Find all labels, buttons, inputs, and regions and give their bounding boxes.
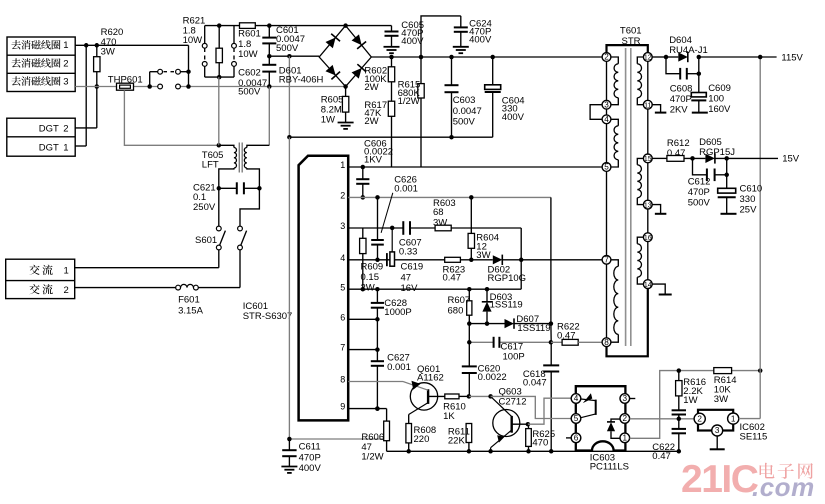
svg-text:0.47: 0.47 xyxy=(557,330,576,341)
resistor R623 xyxy=(445,257,461,262)
wire T601 pin11 ground stub xyxy=(652,105,660,113)
svg-text:3: 3 xyxy=(623,394,628,403)
wire pin6-pin7 link xyxy=(375,319,380,352)
svg-text:F601: F601 xyxy=(178,294,200,305)
transformer T601 core xyxy=(626,48,631,346)
capacitor C608 xyxy=(666,57,701,80)
label R602 100K 2W xyxy=(364,65,387,93)
label C612 470P 500V xyxy=(688,176,711,208)
T601 pin3-pin4 tap link xyxy=(590,105,602,120)
svg-text:.com: .com xyxy=(752,472,815,502)
wire DC- vertical xyxy=(288,56,290,137)
switch S601 left pole xyxy=(216,226,225,250)
svg-text:0.47: 0.47 xyxy=(652,451,671,462)
T601 pin 7 xyxy=(602,255,611,264)
label R623 0.47 xyxy=(443,264,466,283)
svg-text:2W: 2W xyxy=(364,82,378,93)
svg-text:3W: 3W xyxy=(433,217,447,228)
wire D607 line xyxy=(469,321,553,326)
thermistor THP601 xyxy=(117,83,134,90)
svg-text:5: 5 xyxy=(604,163,609,172)
transistor Q601 A1162 xyxy=(403,381,438,415)
wire pin2 line xyxy=(348,195,551,200)
label D602 RGP10G xyxy=(488,264,527,284)
capacitor C604 xyxy=(485,57,501,137)
label C606 0.0022 1KV xyxy=(364,138,393,165)
svg-text:14: 14 xyxy=(644,282,652,289)
wire degauss coil 1 to contacts xyxy=(75,43,188,48)
ground C611 xyxy=(281,467,297,473)
capacitor C609 xyxy=(691,74,706,113)
capacitor C603 xyxy=(445,57,459,137)
capacitor C611 xyxy=(282,439,296,467)
capacitor R616 coupling xyxy=(672,410,686,419)
svg-text:115V: 115V xyxy=(781,52,803,63)
wire pin9 line xyxy=(348,408,386,410)
switch S601 right pole xyxy=(238,226,247,250)
svg-text:C609: C609 xyxy=(708,83,731,94)
wire AC degauss line xyxy=(75,84,345,89)
capacitor C617 xyxy=(494,337,500,348)
svg-text:1000P: 1000P xyxy=(384,307,411,318)
resistor R607 xyxy=(467,289,472,326)
wire opto pin2 line xyxy=(630,417,695,422)
resistor R625 xyxy=(526,424,532,451)
label Q601 A1162 xyxy=(417,364,444,384)
label C608 470P 2KV xyxy=(670,83,693,115)
svg-text:STR: STR xyxy=(622,36,641,47)
resistor R602 xyxy=(388,57,394,82)
ground R605 xyxy=(338,123,354,129)
label C601 0.0047 500V xyxy=(276,25,305,54)
wire relay to T605 xyxy=(218,77,220,145)
capacitor C607 xyxy=(403,221,410,235)
T601 winding 16-14 xyxy=(637,237,643,284)
label C605 470P 400V xyxy=(401,20,424,47)
wire DC- from bridge xyxy=(269,54,319,59)
svg-text:3W: 3W xyxy=(714,394,728,405)
svg-text:470P: 470P xyxy=(299,452,321,463)
svg-text:PC111LS: PC111LS xyxy=(590,461,629,472)
svg-text:SE115: SE115 xyxy=(740,431,768,442)
wire switch right to fuse xyxy=(239,250,241,288)
wire pin1 line to T601 pin5 xyxy=(348,165,602,170)
svg-text:500V: 500V xyxy=(453,116,476,127)
T601 pin 16 xyxy=(643,233,652,242)
connector DGT 2 / DGT 1 box xyxy=(7,118,75,156)
svg-text:470: 470 xyxy=(532,437,548,448)
resistor R601 xyxy=(240,23,256,29)
label D603 1SS119 xyxy=(490,292,523,311)
IC603 pin 3 xyxy=(620,394,635,404)
label C621 0.1 250V xyxy=(193,182,216,213)
ground pin11 xyxy=(655,112,667,114)
label D607 1SS119 xyxy=(516,314,550,334)
ground IC602 pin3 xyxy=(710,448,725,450)
wire snubber junction vertical xyxy=(520,228,522,289)
wire opto pin1 to R614 line xyxy=(630,368,763,438)
svg-text:1/2W: 1/2W xyxy=(398,96,420,107)
svg-text:T601: T601 xyxy=(620,25,642,36)
transformer T605 right winding xyxy=(244,145,269,188)
svg-text:500V: 500V xyxy=(276,43,299,54)
svg-text:250V: 250V xyxy=(193,202,216,213)
capacitor C606 xyxy=(356,167,369,200)
label C618 0.047 xyxy=(523,369,547,389)
svg-text:2: 2 xyxy=(340,191,345,201)
svg-text:400V: 400V xyxy=(502,112,525,123)
svg-text:4: 4 xyxy=(574,394,579,403)
label 115V xyxy=(781,52,803,63)
svg-text:5: 5 xyxy=(340,282,345,292)
svg-text:1W: 1W xyxy=(683,395,697,406)
watermark .com xyxy=(752,472,815,502)
diode D607 1SS119 xyxy=(505,318,515,328)
wire T601 pin14 ground stub xyxy=(652,284,665,294)
label R614 10K 3W xyxy=(714,375,737,405)
wire C602 to T605 xyxy=(268,87,270,146)
svg-text:C619: C619 xyxy=(401,261,424,272)
transformer T601 bottom bracket xyxy=(607,289,648,357)
label R603 68 3W xyxy=(433,198,456,229)
svg-text:3.15A: 3.15A xyxy=(178,305,203,316)
svg-text:2: 2 xyxy=(63,123,68,134)
capacitor C628 xyxy=(371,289,384,321)
wire pin4 line xyxy=(348,258,602,263)
label R615 680K 1/2W xyxy=(398,79,421,107)
capacitor C622 xyxy=(672,419,686,453)
diode D604 RU4A-J1 xyxy=(666,52,688,62)
T601 pin 13 xyxy=(643,200,652,209)
transformer T601 primary column xyxy=(606,61,608,337)
svg-text:8: 8 xyxy=(340,375,345,385)
svg-text:RBY-406H: RBY-406H xyxy=(279,74,324,85)
svg-text:16V: 16V xyxy=(401,283,419,294)
label R621 1.8 10W xyxy=(183,15,206,46)
svg-text:0.15: 0.15 xyxy=(361,272,380,283)
ground C624 xyxy=(453,47,469,53)
wire DGT2 / R620 vertical xyxy=(75,45,99,128)
capacitor C626 xyxy=(371,197,384,262)
watermark 21IC logo xyxy=(681,458,759,501)
svg-text:4: 4 xyxy=(340,253,345,263)
capacitor C620 xyxy=(462,342,477,396)
svg-text:3: 3 xyxy=(604,100,609,109)
wire C621 to S601 left xyxy=(218,188,220,226)
svg-text:THP601: THP601 xyxy=(108,74,143,85)
label D601 RBY-406H xyxy=(279,65,324,85)
diode D603 1SS119 xyxy=(482,289,492,326)
resistor R615 xyxy=(418,57,424,167)
svg-text:470P: 470P xyxy=(670,94,692,105)
svg-text:2KV: 2KV xyxy=(670,104,689,115)
svg-text:330: 330 xyxy=(740,194,756,205)
wire pin3 line xyxy=(348,227,521,229)
ground C609 xyxy=(692,112,708,114)
resistor R614 xyxy=(714,368,732,374)
label IC601 STR-S6307 xyxy=(243,301,293,322)
pin numbers IC601 1-9 xyxy=(340,160,345,412)
capacitor C605 xyxy=(346,26,399,47)
svg-text:500V: 500V xyxy=(688,197,711,208)
svg-text:47: 47 xyxy=(401,272,412,283)
svg-text:12: 12 xyxy=(644,55,652,62)
svg-text:2: 2 xyxy=(623,414,628,423)
label R620 470 3W xyxy=(101,27,124,58)
label T605 LFT xyxy=(202,150,224,171)
diode D602 RGP10G xyxy=(493,255,503,265)
connector 交流 1 / 交流 2 (AC) box xyxy=(6,259,75,298)
resistor R620 xyxy=(94,57,100,72)
wire THP601 branch to T605 xyxy=(124,90,221,147)
wire pin2 net vertical xyxy=(550,197,552,342)
label R622 0.47 xyxy=(557,321,580,341)
label R610 1K xyxy=(443,401,466,422)
svg-text:10W: 10W xyxy=(238,49,258,60)
label 15V xyxy=(782,153,800,164)
resistor R617 xyxy=(388,82,394,167)
T601 winding 12-11 xyxy=(637,57,643,105)
label T601 STR xyxy=(620,25,642,47)
svg-text:25V: 25V xyxy=(740,204,758,215)
label C604 330 400V xyxy=(502,95,525,123)
resistor R616 xyxy=(676,371,682,411)
svg-text:1KV: 1KV xyxy=(364,154,383,165)
svg-text:16: 16 xyxy=(644,235,652,242)
T601 winding 2-3 xyxy=(611,57,618,105)
wire 115V feedback rail xyxy=(759,57,761,371)
svg-text:C2712: C2712 xyxy=(499,396,527,407)
svg-text:15V: 15V xyxy=(782,153,800,164)
capacitor C624 xyxy=(454,16,468,47)
ground pin13 xyxy=(655,213,667,215)
svg-text:500V: 500V xyxy=(238,87,261,98)
IC602 pin 3 xyxy=(712,425,723,449)
svg-text:1W: 1W xyxy=(321,114,335,125)
capacitor C627 xyxy=(371,350,384,411)
label Q603 C2712 xyxy=(499,386,527,407)
label C610 330 25V xyxy=(740,183,763,215)
svg-text:2W: 2W xyxy=(364,116,378,127)
capacitor C610 xyxy=(718,158,736,213)
svg-text:8: 8 xyxy=(604,338,609,347)
label D605 RGP15J xyxy=(699,137,735,158)
resistor R606 xyxy=(375,406,389,451)
label IC602 SE115 xyxy=(740,422,768,443)
IC603 pin 1 xyxy=(620,433,630,443)
T601 pin 15 xyxy=(643,154,652,163)
svg-text:DGT: DGT xyxy=(39,123,59,134)
label C617 100P xyxy=(501,341,525,362)
svg-text:400V: 400V xyxy=(469,34,492,45)
label R611 22K xyxy=(448,426,470,446)
label R604 12 3W xyxy=(476,232,499,260)
svg-text:11: 11 xyxy=(644,102,651,109)
svg-text:15: 15 xyxy=(644,156,652,163)
resistor R603 xyxy=(435,225,451,231)
resistor R621 xyxy=(216,26,222,78)
wire pin7 stub xyxy=(348,349,377,351)
svg-text:0.47: 0.47 xyxy=(443,272,462,283)
IC603 LED xyxy=(607,419,621,438)
T601 winding 4-5 xyxy=(611,119,618,167)
label S601 xyxy=(195,235,217,246)
ground C610 xyxy=(721,213,737,215)
svg-text:1SS119: 1SS119 xyxy=(490,299,523,310)
T601 pin 5 xyxy=(602,163,611,172)
T601 pin 2 xyxy=(602,53,611,62)
svg-text:100: 100 xyxy=(708,93,724,104)
label THP601 xyxy=(108,74,143,85)
svg-text:13: 13 xyxy=(644,202,652,209)
svg-text:0.001: 0.001 xyxy=(387,362,411,373)
svg-text:3: 3 xyxy=(63,77,68,88)
wire pin8 line xyxy=(348,381,403,383)
IC603 pin 4 xyxy=(571,394,581,404)
capacitor C602 xyxy=(262,54,276,87)
svg-text:100P: 100P xyxy=(503,351,525,362)
svg-text:C611: C611 xyxy=(299,442,321,453)
contact pair on AC line xyxy=(158,84,181,89)
capacitor C618 xyxy=(543,342,559,453)
svg-text:RGP10G: RGP10G xyxy=(488,273,527,284)
label C624 470P 400V xyxy=(469,18,492,45)
wire relay bottom xyxy=(205,75,234,80)
svg-text:4: 4 xyxy=(604,115,609,124)
label C626 0.001 with leader xyxy=(381,174,418,233)
wire C617 line xyxy=(467,324,553,345)
IC603 phototransistor xyxy=(581,393,596,418)
svg-text:1K: 1K xyxy=(443,411,455,422)
T601 pin 8 xyxy=(602,338,611,347)
label C603 0.0047 500V xyxy=(453,95,482,128)
capacitor C601 xyxy=(262,26,276,57)
svg-text:R607: R607 xyxy=(448,295,471,306)
svg-text:1SS119: 1SS119 xyxy=(517,323,550,334)
wire pin5 line xyxy=(348,287,521,292)
svg-text:6: 6 xyxy=(574,434,579,443)
resistor R604 xyxy=(468,197,474,259)
regulator IC602 SE115 body xyxy=(698,410,733,431)
wire 15V line xyxy=(652,156,778,161)
transformer T605 left winding xyxy=(219,145,237,188)
label C622 0.47 xyxy=(652,442,675,462)
svg-text:680: 680 xyxy=(448,305,464,316)
svg-text:1/2W: 1/2W xyxy=(361,452,383,463)
contact pair top (degauss plug) xyxy=(150,69,189,86)
label C602 0.0047 500V xyxy=(238,68,267,98)
wire C621 to S601 right xyxy=(240,188,259,226)
label R625 470 xyxy=(532,429,555,449)
T601 pin 12 xyxy=(643,53,652,62)
svg-text:3: 3 xyxy=(340,221,345,231)
svg-text:C608: C608 xyxy=(670,83,693,94)
svg-text:5: 5 xyxy=(574,414,579,423)
svg-text:1: 1 xyxy=(731,414,736,423)
label C619 47 16V xyxy=(401,261,424,294)
svg-text:9: 9 xyxy=(340,402,345,412)
svg-text:0.47: 0.47 xyxy=(667,148,686,159)
svg-text:STR-S6307: STR-S6307 xyxy=(243,311,293,322)
label R612 0.47 xyxy=(667,138,690,159)
optocoupler IC603 PC111LS body xyxy=(576,386,626,450)
resistor R611 xyxy=(466,424,472,452)
svg-text:2: 2 xyxy=(697,415,702,424)
wire Q603 collector xyxy=(512,422,530,427)
label R606 47 1/2W xyxy=(361,432,384,463)
label R607 680 xyxy=(448,295,471,317)
svg-text:470P: 470P xyxy=(688,187,710,198)
svg-text:400V: 400V xyxy=(299,463,322,474)
svg-text:DGT: DGT xyxy=(39,142,59,153)
op-amp IC601 STR-S6307 body xyxy=(299,156,349,421)
connector 去消磁线圈 1/2/3 (degauss coil) box xyxy=(7,37,75,92)
T601 pin 14 xyxy=(643,280,652,289)
svg-text:A1162: A1162 xyxy=(417,372,444,383)
svg-text:3W: 3W xyxy=(101,47,115,58)
label IC603 PC111LS xyxy=(590,452,629,472)
label F601 3.15A xyxy=(178,294,203,316)
svg-text:1: 1 xyxy=(623,434,628,443)
svg-text:C603: C603 xyxy=(453,95,476,106)
resistor R605 xyxy=(342,87,348,123)
svg-text:7: 7 xyxy=(340,343,345,353)
svg-text:160V: 160V xyxy=(708,104,731,115)
resistor R610 xyxy=(428,394,471,399)
IC603 pin 2 xyxy=(620,414,630,424)
label R605 8.2M 1W xyxy=(321,94,344,125)
svg-text:0.0022: 0.0022 xyxy=(478,372,507,383)
bridge rectifier D601 xyxy=(319,23,371,88)
svg-text:0.047: 0.047 xyxy=(523,377,547,388)
svg-text:21IC: 21IC xyxy=(681,458,759,501)
resistor R612 xyxy=(667,156,684,162)
fuse F601 xyxy=(75,284,240,290)
svg-text:68: 68 xyxy=(433,207,444,218)
wire Q603 base net to opto pin5 xyxy=(491,396,572,418)
svg-text:2: 2 xyxy=(63,58,68,69)
wire DGT1 vertical xyxy=(75,45,86,146)
label R608 220 xyxy=(414,425,437,445)
svg-text:10W: 10W xyxy=(183,35,203,46)
transformer T601 secondary column xyxy=(647,61,649,279)
svg-text:2: 2 xyxy=(604,53,609,62)
label C620 0.0022 xyxy=(478,363,507,383)
svg-text:C612: C612 xyxy=(688,176,711,187)
ground pin14 xyxy=(659,294,672,296)
svg-text:7: 7 xyxy=(604,256,609,265)
svg-text:220: 220 xyxy=(414,434,430,445)
capacitor C612 xyxy=(693,158,729,181)
label C609 100 160V xyxy=(708,83,731,115)
diode D605 RGP15J xyxy=(705,153,715,163)
T601 pin 4 xyxy=(602,115,611,124)
wire 115V line xyxy=(652,55,776,60)
svg-text:R609: R609 xyxy=(361,261,384,272)
svg-text:1: 1 xyxy=(63,142,68,153)
svg-text:C610: C610 xyxy=(740,183,763,194)
T601 pin 11 xyxy=(643,100,652,109)
svg-text:0.001: 0.001 xyxy=(394,183,418,194)
svg-text:S601: S601 xyxy=(195,235,217,246)
wire Q603 collector to opto pin4 xyxy=(528,398,572,424)
IC603 pin 5 xyxy=(571,414,581,424)
svg-text:LFT: LFT xyxy=(202,159,219,170)
wire Q601 base net to Q603 xyxy=(469,394,493,399)
wire primary return bus xyxy=(287,135,493,140)
resistor R622 xyxy=(551,339,602,345)
svg-text:3W: 3W xyxy=(476,250,490,261)
